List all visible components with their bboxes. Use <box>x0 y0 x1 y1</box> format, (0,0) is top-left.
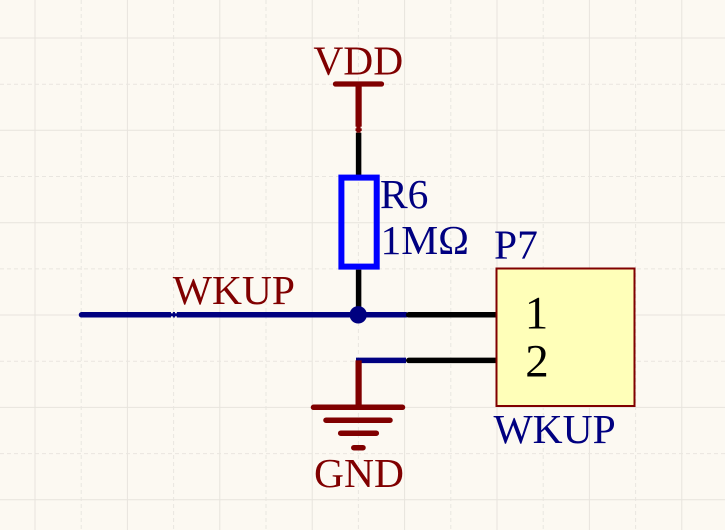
junction break marks on VDD lead <box>353 128 364 132</box>
svg-text:WKUP: WKUP <box>173 267 295 313</box>
wire net WKUP horizontal <box>82 312 407 318</box>
wire R6 to junction <box>356 270 362 315</box>
wire VDD to R6 <box>356 133 362 176</box>
svg-text:P7: P7 <box>494 221 538 267</box>
resistor R6 body <box>341 178 376 267</box>
svg-text:1MΩ: 1MΩ <box>381 217 470 263</box>
svg-text:R6: R6 <box>380 171 428 217</box>
power port VDD lead <box>356 84 362 133</box>
svg-text:WKUP: WKUP <box>494 406 616 452</box>
pin 2 wire of P7 <box>409 358 497 364</box>
svg-text:VDD: VDD <box>313 38 403 84</box>
power port VDD bar symbol <box>336 81 382 86</box>
connector P7 body <box>497 269 635 407</box>
segment break marks on WKUP wire <box>172 309 176 320</box>
ground lead <box>356 360 362 404</box>
svg-text:1: 1 <box>525 288 549 340</box>
ground bars <box>314 407 403 447</box>
svg-text:2: 2 <box>525 335 549 387</box>
pin 1 wire of P7 <box>409 312 497 318</box>
wire pin 2 to GND <box>356 358 406 364</box>
svg-text:GND: GND <box>314 450 404 496</box>
junction dot node WKUP <box>350 306 367 323</box>
